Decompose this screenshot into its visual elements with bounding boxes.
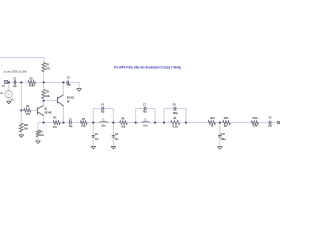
svg-text:10n: 10n	[95, 138, 99, 141]
wire C2 to ground corner	[69, 82, 79, 88]
wire C5 to R7	[71, 122, 80, 124]
wire bias divider vertical	[20, 82, 22, 123]
wire emitter row to R6 corner	[38, 123, 44, 131]
resistor R6 vertical	[36, 130, 40, 137]
capacitor C5b plates	[92, 136, 95, 138]
wire node E to R11	[220, 122, 223, 124]
junction tank3 left	[163, 122, 165, 124]
ground R6	[36, 141, 41, 144]
wire shunt C10 bottom to ground	[219, 137, 221, 146]
wire tank2 to tank3	[155, 122, 164, 124]
resistor R5	[53, 121, 60, 125]
junction tank2 left	[135, 122, 137, 124]
wire emitter node to R5	[44, 122, 53, 124]
transistor Q2	[57, 95, 63, 106]
wire shunt C5b top	[92, 123, 94, 136]
ground C5b	[91, 146, 96, 149]
svg-text:10k: 10k	[121, 125, 125, 128]
wire R5 to node D	[60, 122, 63, 124]
resistor R3 vertical	[42, 89, 46, 98]
junction V1/input	[8, 82, 10, 84]
capacitor C1 plates	[14, 80, 15, 84]
ground C6	[111, 146, 116, 149]
junction node B collector	[63, 82, 65, 84]
resistor R7	[80, 121, 87, 125]
wire R2 to input row	[43, 72, 45, 83]
svg-text:270: 270	[46, 68, 50, 71]
wire shunt C6 top	[112, 123, 114, 136]
resistor R1	[28, 81, 36, 85]
svg-text:68p: 68p	[67, 84, 71, 87]
wire tank2 top right	[146, 109, 155, 123]
svg-text:270: 270	[53, 126, 57, 129]
svg-text:75p: 75p	[101, 110, 105, 113]
wire L2 to tank2 right	[149, 122, 155, 124]
resistor R10b	[208, 121, 216, 125]
junction tank2 right	[154, 122, 156, 124]
wire Q2 emitter vertical	[62, 106, 64, 123]
ground C10	[217, 147, 222, 150]
wire Q1 collector vertical	[43, 101, 45, 106]
capacitor C9 plates	[269, 121, 271, 125]
svg-text:R10: R10	[24, 124, 29, 127]
wire shunt C10 top	[219, 123, 221, 136]
svg-text:22µ: 22µ	[69, 125, 73, 128]
svg-text:10n: 10n	[115, 138, 119, 141]
svg-text:.ac dec 10000 10 250k: .ac dec 10000 10 250k	[3, 69, 27, 73]
wire base branch to R4	[21, 109, 23, 111]
wire R1 to node A	[36, 81, 44, 83]
input port box	[4, 80, 7, 83]
wire node B to C2	[63, 81, 67, 83]
svg-text:NF: NF	[67, 101, 70, 104]
junction tank1 right	[113, 122, 115, 124]
ground C2	[77, 89, 82, 92]
wire R3 top	[43, 82, 45, 89]
wire node D to C5	[63, 122, 69, 124]
capacitor C6 plates	[112, 136, 115, 138]
svg-text:22µ: 22µ	[13, 85, 17, 88]
junction Q1 emitter	[43, 122, 45, 124]
svg-text:BC546C: BC546C	[45, 111, 53, 114]
resistor R9 tank3	[171, 121, 180, 125]
wire R10b to node E	[216, 122, 220, 124]
junction node A	[43, 82, 45, 84]
ground V1	[7, 101, 12, 104]
resistor R11	[223, 121, 231, 125]
resistor R2 vertical	[42, 63, 46, 72]
wire tank1 bottom left to L1	[93, 122, 100, 124]
svg-text:4.7k: 4.7k	[81, 125, 86, 128]
svg-text:C10: C10	[221, 133, 226, 136]
wire shunt C6 bottom to ground	[112, 137, 114, 146]
inductor L2	[142, 122, 149, 123]
resistor R8	[120, 121, 128, 125]
wire R8 to tank2	[127, 122, 135, 124]
wire R11 to R12	[230, 122, 251, 124]
wire R6 bottom to ground	[37, 137, 39, 141]
ground R10	[19, 135, 24, 138]
resistor R4	[24, 109, 31, 113]
svg-text:10k: 10k	[46, 95, 50, 98]
wire input row segment V1 to C1	[8, 81, 14, 83]
wire R4 to Q1 base	[31, 109, 37, 111]
wire V1 stub	[8, 82, 10, 90]
svg-text:10k: 10k	[253, 124, 259, 127]
wire R10 bottom to ground	[20, 132, 22, 135]
wire tank2 bottom left to L2	[136, 122, 142, 124]
wire Q2 collector vertical	[62, 82, 64, 94]
svg-text:12m: 12m	[101, 124, 106, 127]
svg-text:R11: R11	[224, 117, 229, 120]
wire tank1 top right	[104, 109, 114, 123]
svg-text:100k: 100k	[29, 85, 35, 88]
svg-text:8.2k: 8.2k	[173, 125, 179, 128]
junction node C	[43, 100, 45, 102]
wire tank3 top right	[176, 109, 186, 123]
capacitor C4 plates	[102, 107, 104, 111]
wire tank3 bottom left to R9	[164, 122, 171, 124]
capacitor C7 plates	[144, 107, 146, 111]
resistor R12	[251, 121, 258, 125]
wire R12 to C9	[259, 122, 270, 124]
wire R3 bottom to node C	[43, 98, 45, 100]
wire tank3 left vertical	[164, 109, 174, 123]
svg-text:4.3k: 4.3k	[26, 113, 31, 116]
voltage source V1	[5, 91, 12, 98]
junction base branch	[20, 110, 22, 112]
wire tank1 left vertical	[93, 109, 102, 123]
wire node C to Q2 base	[44, 100, 58, 102]
svg-text:R12: R12	[253, 117, 259, 120]
wire tank2 left vertical	[136, 109, 144, 123]
wire node A to node B	[44, 81, 64, 83]
transistor Q1	[37, 105, 43, 116]
svg-text:10µ: 10µ	[268, 124, 272, 127]
wire C9 to out port	[271, 122, 277, 124]
wire C1 to R1	[16, 81, 28, 83]
svg-text:1.2k: 1.2k	[40, 134, 45, 137]
wire R7 to tank1	[87, 122, 93, 124]
junction tank1 left	[92, 122, 94, 124]
inductor L1	[100, 122, 107, 123]
wire top rail	[1, 57, 44, 62]
capacitor C10 plates	[218, 135, 221, 137]
junction Q2 emitter	[63, 122, 65, 124]
output port box	[277, 121, 279, 124]
svg-text:AC 1: AC 1	[11, 98, 15, 101]
wire V1 bottom to ground	[8, 98, 10, 102]
capacitor C5 plates	[70, 121, 72, 125]
svg-text:180p: 180p	[221, 138, 227, 141]
svg-text:10k: 10k	[24, 128, 28, 131]
svg-text:180p: 180p	[173, 112, 179, 115]
svg-text:75p: 75p	[143, 110, 147, 113]
wire R9 to tank3 right	[180, 122, 186, 124]
svg-text:Pre MPX Filter (like the Broad: Pre MPX Filter (like the Broadcast Crosb…	[114, 65, 182, 69]
capacitor C8 plates	[174, 107, 176, 111]
wire shunt C5b bottom to ground	[92, 137, 94, 146]
wire tank1 to R8	[113, 122, 119, 124]
junction tank3 right	[185, 122, 187, 124]
wire Q1 emitter vertical	[43, 116, 45, 123]
svg-text:SINE: SINE	[0, 93, 3, 95]
svg-text:12m: 12m	[143, 124, 148, 127]
svg-text:R10: R10	[210, 117, 215, 120]
junction node E	[219, 122, 221, 124]
wire L1 to tank1 right	[107, 122, 113, 124]
wire tank3 to R10b	[186, 122, 208, 124]
svg-text:BC546C: BC546C	[67, 97, 74, 100]
resistor R10 vertical	[19, 123, 23, 132]
capacitor C2 plates	[67, 81, 68, 85]
junction divider top	[20, 82, 22, 84]
